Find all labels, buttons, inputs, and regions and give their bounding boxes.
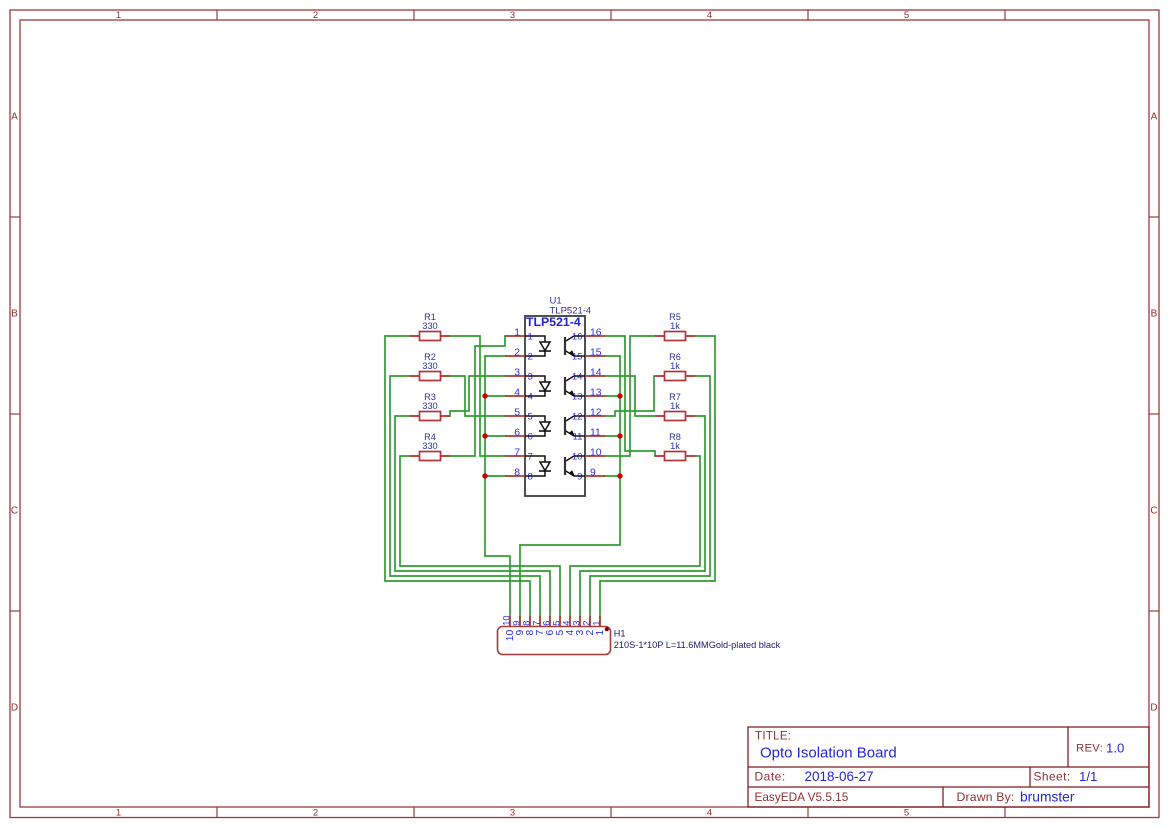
title block — [748, 727, 1149, 807]
svg-text:8: 8 — [525, 630, 536, 636]
title block texts — [755, 731, 1125, 805]
svg-text:A: A — [11, 112, 18, 123]
svg-text:5: 5 — [528, 411, 533, 422]
U1 pin stubs — [505, 336, 605, 476]
svg-text:1: 1 — [514, 327, 520, 338]
wire R8 right lead to H1 pin 4 — [570, 456, 700, 617]
svg-text:9: 9 — [590, 467, 596, 478]
optocoupler channel 1 LED and phototransistor — [525, 336, 585, 356]
svg-text:2: 2 — [514, 347, 520, 358]
svg-text:A: A — [1151, 112, 1158, 123]
svg-text:TITLE:: TITLE: — [755, 731, 791, 743]
wire R6 right lead to H1 pin 2 — [590, 376, 710, 617]
svg-text:1k: 1k — [670, 321, 680, 331]
svg-text:REV:: REV: — [1076, 743, 1103, 755]
svg-text:6: 6 — [528, 431, 533, 442]
svg-text:4: 4 — [707, 10, 712, 21]
svg-text:7: 7 — [532, 621, 542, 626]
wire R7 right lead to H1 pin 3 — [580, 416, 705, 617]
svg-text:4: 4 — [528, 391, 534, 402]
wire R3 left lead to H1 pin 6 — [395, 416, 550, 617]
junction dot U1 pin 13 net — [617, 393, 622, 398]
svg-text:16: 16 — [590, 327, 602, 338]
op-amp U1 TLP521-4 body — [525, 316, 585, 496]
svg-text:8: 8 — [522, 621, 532, 626]
svg-text:4: 4 — [562, 621, 572, 626]
svg-text:2: 2 — [313, 10, 318, 21]
svg-text:6: 6 — [514, 427, 520, 438]
junction dot U1 pin 9 net — [617, 473, 622, 478]
svg-text:D: D — [11, 703, 18, 714]
wire U1 pin 11 tap — [605, 435, 620, 437]
svg-text:D: D — [1150, 703, 1157, 714]
svg-text:11: 11 — [573, 431, 583, 442]
wire R2 left lead to H1 pin 7 — [390, 376, 540, 617]
svg-text:H1: H1 — [614, 629, 626, 639]
wire U1 pin 16 to R8 left lead — [605, 336, 655, 456]
svg-text:13: 13 — [590, 387, 602, 398]
junction dot U1 pin 11 net — [617, 433, 622, 438]
svg-text:2: 2 — [582, 621, 592, 626]
svg-text:3: 3 — [514, 367, 520, 378]
wire R2 right lead to U1 pin 5 — [450, 376, 505, 416]
svg-text:9: 9 — [512, 621, 522, 626]
wire R4 right lead to U1 pin 1 — [450, 336, 505, 456]
svg-text:7: 7 — [535, 630, 546, 636]
H1 pin stubs — [510, 616, 600, 627]
wire U1 pin 8 tap — [485, 475, 505, 477]
svg-text:1/1: 1/1 — [1079, 769, 1097, 784]
svg-text:3: 3 — [572, 621, 582, 626]
svg-text:5: 5 — [904, 808, 909, 819]
svg-text:12: 12 — [590, 407, 602, 418]
wire U1 pin 14 to R7 left lead — [605, 376, 655, 416]
svg-text:5: 5 — [904, 10, 909, 21]
svg-text:1k: 1k — [670, 361, 680, 371]
junction dot U1 pin 4 net — [482, 393, 487, 398]
U1 pin numbers — [514, 327, 602, 482]
svg-text:7: 7 — [514, 447, 520, 458]
svg-text:3: 3 — [510, 10, 515, 21]
svg-text:9: 9 — [515, 630, 526, 636]
svg-text:10: 10 — [505, 630, 516, 642]
svg-text:Opto Isolation Board: Opto Isolation Board — [760, 744, 897, 761]
resistor R5 1k — [655, 312, 695, 341]
svg-text:13: 13 — [572, 391, 583, 402]
svg-text:5: 5 — [514, 407, 520, 418]
svg-text:C: C — [11, 506, 18, 517]
U1 part name text — [526, 315, 581, 329]
svg-text:1: 1 — [592, 621, 602, 626]
svg-text:11: 11 — [590, 427, 601, 438]
svg-text:5: 5 — [555, 630, 566, 636]
svg-text:4: 4 — [707, 808, 712, 819]
wire U1 pin 13 tap — [605, 395, 620, 397]
optocoupler channel 3 LED and phototransistor — [525, 416, 585, 436]
svg-text:B: B — [11, 309, 18, 320]
svg-text:10: 10 — [590, 447, 602, 458]
svg-text:1: 1 — [595, 630, 606, 636]
svg-text:6: 6 — [542, 621, 552, 626]
H1 pin numbers — [502, 615, 607, 641]
svg-text:1k: 1k — [670, 441, 680, 451]
svg-text:5: 5 — [552, 621, 562, 626]
resistor R6 1k — [655, 352, 695, 381]
wire U1 pin 9 tap — [605, 475, 620, 477]
svg-text:1.0: 1.0 — [1106, 741, 1124, 756]
resistor R7 1k — [655, 392, 695, 421]
junction dot U1 pin 6 net — [482, 433, 487, 438]
svg-text:15: 15 — [572, 351, 583, 362]
svg-text:3: 3 — [575, 630, 586, 636]
U1 reference label — [550, 296, 592, 317]
svg-text:330: 330 — [422, 321, 437, 331]
svg-text:1: 1 — [528, 331, 533, 342]
svg-text:4: 4 — [514, 387, 520, 398]
svg-text:2: 2 — [528, 351, 533, 362]
wire U1 pin 10 to R5 left lead — [605, 336, 655, 456]
resistor R4 330 — [410, 432, 450, 461]
svg-text:1: 1 — [116, 10, 121, 21]
svg-text:330: 330 — [422, 441, 437, 451]
svg-text:4: 4 — [565, 630, 576, 636]
svg-text:EasyEDA V5.5.15: EasyEDA V5.5.15 — [755, 790, 849, 804]
svg-text:1k: 1k — [670, 401, 680, 411]
svg-text:15: 15 — [590, 347, 602, 358]
svg-text:2: 2 — [585, 630, 596, 636]
svg-text:2: 2 — [313, 808, 318, 819]
svg-text:8: 8 — [514, 467, 520, 478]
wire R1 left lead to H1 pin 8 — [385, 336, 530, 617]
wire R3 right lead to U1 pin 3 — [450, 376, 505, 416]
svg-text:Drawn By:: Drawn By: — [957, 790, 1015, 804]
resistor R8 1k — [655, 432, 695, 461]
svg-text:3: 3 — [528, 371, 533, 382]
svg-text:C: C — [1150, 506, 1157, 517]
wire R4 left lead to H1 pin 5 — [400, 456, 560, 617]
optocoupler channel 2 LED and phototransistor — [525, 376, 585, 396]
svg-text:1: 1 — [116, 808, 121, 819]
svg-text:2018-06-27: 2018-06-27 — [805, 769, 874, 784]
resistor R1 330 — [410, 312, 450, 341]
connector H1 body — [498, 627, 611, 655]
svg-text:9: 9 — [577, 471, 582, 482]
junction dot U1 pin 8 net — [482, 473, 487, 478]
wire R5 right lead to H1 pin 1 — [600, 336, 715, 617]
resistor R3 330 — [410, 392, 450, 421]
svg-text:6: 6 — [545, 630, 556, 636]
svg-text:7: 7 — [528, 451, 533, 462]
wire R1 right lead to U1 pin 7 — [450, 336, 505, 456]
svg-text:14: 14 — [590, 367, 602, 378]
optocoupler channel 4 LED and phototransistor — [525, 456, 585, 476]
wire U1 pin 4 tap — [485, 395, 505, 397]
svg-text:330: 330 — [422, 401, 437, 411]
wire emitter bus U1 pin 15 to H1 pin 9 — [520, 356, 620, 617]
resistor R2 330 — [410, 352, 450, 381]
svg-text:Sheet:: Sheet: — [1034, 770, 1071, 784]
H1 reference and value label — [614, 629, 781, 651]
svg-text:TLP521-4: TLP521-4 — [526, 315, 581, 329]
wire cathode bus U1 pin 2 to H1 pin 10 — [485, 356, 510, 617]
svg-text:8: 8 — [528, 471, 533, 482]
wire U1 pin 12 to R6 left lead — [605, 376, 655, 416]
svg-text:Date:: Date: — [755, 770, 786, 784]
svg-text:3: 3 — [510, 808, 515, 819]
svg-text:330: 330 — [422, 361, 437, 371]
svg-text:10: 10 — [502, 615, 512, 625]
connector H1 pin 1 marker dot — [605, 627, 609, 631]
svg-text:B: B — [1151, 309, 1158, 320]
wire U1 pin 6 tap — [485, 435, 505, 437]
svg-text:brumster: brumster — [1020, 790, 1075, 805]
svg-text:210S-1*10P L=11.6MMGold-plated: 210S-1*10P L=11.6MMGold-plated black — [614, 640, 781, 650]
